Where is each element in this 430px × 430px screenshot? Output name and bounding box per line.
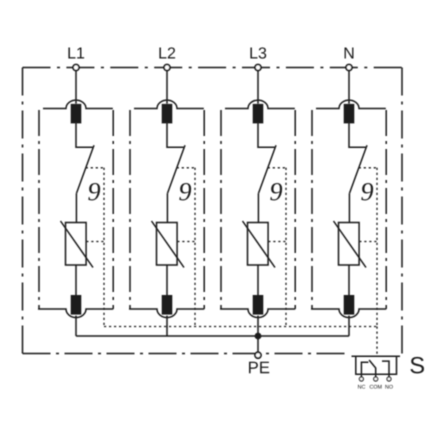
wire bottom contact to PE bus bbox=[348, 316, 350, 336]
bottom disconnect contact pin (filled) bbox=[344, 295, 355, 315]
top plug-in contact arc bbox=[43, 100, 113, 108]
wire switch to varistor bbox=[75, 193, 77, 222]
CHANNEL 2 (L2) module SPD2 dashed outline bbox=[130, 110, 204, 309]
varistor MOV1 bbox=[66, 223, 87, 266]
top disconnect contact pin (filled) bbox=[162, 104, 173, 124]
CHANNEL 1 (L1) module SPD1 dashed outline bbox=[39, 110, 113, 309]
thermal sensor symbol (theta) bbox=[270, 183, 282, 201]
bottom disconnect contact pin (filled) bbox=[253, 295, 264, 315]
thermal sensor symbol (theta) bbox=[179, 183, 191, 201]
label NC bbox=[358, 385, 365, 389]
thermal disconnect switch blade bbox=[350, 145, 368, 193]
thermal sensor symbol (theta) bbox=[88, 183, 100, 201]
thermal sense dotted links bbox=[177, 168, 195, 327]
wire bottom contact to PE bus bbox=[75, 316, 77, 336]
wire contact to thermal switch bbox=[349, 123, 366, 147]
terminal PE bbox=[255, 352, 261, 358]
thermal sense dotted collector line to remote contact bbox=[104, 327, 377, 356]
top disconnect contact pin (filled) bbox=[71, 104, 82, 124]
CHANNEL 3 (L3) module SPD3 dashed outline bbox=[221, 110, 295, 309]
thermal sense dotted links bbox=[86, 168, 104, 327]
terminal L3 bbox=[255, 65, 261, 71]
varistor MOV2 bbox=[157, 223, 178, 266]
label N bbox=[345, 47, 354, 58]
PE bus wire joining varistor bottoms bbox=[76, 335, 349, 337]
wire junction to PE terminal bbox=[257, 336, 259, 352]
terminal N bbox=[346, 65, 352, 71]
thermal disconnect switch blade bbox=[259, 145, 277, 193]
wire switch to varistor bbox=[257, 193, 259, 222]
varistor MOV4 bbox=[339, 223, 360, 266]
wire L2 terminal to top contact bbox=[166, 71, 168, 104]
label L3 bbox=[250, 47, 266, 58]
wire varistor to bottom contact bbox=[75, 265, 77, 295]
label S bbox=[410, 357, 424, 374]
varistor MOV3 bbox=[248, 223, 269, 266]
terminal L1 bbox=[73, 65, 79, 71]
thermal disconnect switch blade bbox=[77, 145, 95, 193]
top plug-in contact arc bbox=[225, 100, 295, 108]
thermal sensor symbol (theta) bbox=[361, 183, 373, 201]
bottom plug-in contact arc bbox=[311, 309, 386, 318]
label L2 bbox=[159, 47, 175, 58]
bottom plug-in contact arc bbox=[220, 309, 295, 318]
enclosure border dash-dot outline bbox=[23, 68, 403, 354]
wire L3 terminal to top contact bbox=[257, 71, 259, 104]
label PE bbox=[249, 362, 269, 373]
wire switch to varistor bbox=[348, 193, 350, 222]
wire contact to thermal switch bbox=[258, 123, 275, 147]
terminal NC bbox=[359, 377, 363, 381]
label COM bbox=[370, 385, 382, 389]
node PE junction dot bbox=[255, 333, 262, 340]
top plug-in contact arc bbox=[134, 100, 204, 108]
wire bottom contact to PE bus bbox=[166, 316, 168, 336]
wire bottom contact to PE bus bbox=[257, 316, 259, 336]
NC contact bbox=[361, 362, 368, 377]
label NO bbox=[385, 385, 392, 389]
thermal sense dotted links bbox=[359, 168, 377, 327]
wire varistor to bottom contact bbox=[257, 265, 259, 295]
bottom disconnect contact pin (filled) bbox=[71, 295, 82, 315]
thermal sense dotted links bbox=[268, 168, 286, 327]
top disconnect contact pin (filled) bbox=[344, 104, 355, 124]
COM contact with blade bbox=[369, 360, 376, 377]
terminal NO bbox=[387, 377, 391, 381]
NO contact bbox=[382, 361, 389, 377]
wire varistor to bottom contact bbox=[348, 265, 350, 295]
wire contact to thermal switch bbox=[167, 123, 184, 147]
wire N terminal to top contact bbox=[348, 71, 350, 104]
terminal L2 bbox=[164, 65, 170, 71]
wire switch to varistor bbox=[166, 193, 168, 222]
bottom plug-in contact arc bbox=[38, 309, 113, 318]
label L1 bbox=[68, 47, 84, 58]
wire varistor to bottom contact bbox=[166, 265, 168, 295]
bottom plug-in contact arc bbox=[129, 309, 204, 318]
top plug-in contact arc bbox=[316, 100, 386, 108]
wire L1 terminal to top contact bbox=[75, 71, 77, 104]
bottom disconnect contact pin (filled) bbox=[162, 295, 173, 315]
top disconnect contact pin (filled) bbox=[253, 104, 264, 124]
thermal disconnect switch blade bbox=[168, 145, 186, 193]
remote signalling changeover contact box bbox=[352, 355, 401, 357]
CHANNEL 4 (N) module SPD4 dashed outline bbox=[312, 110, 386, 309]
wire contact to thermal switch bbox=[76, 123, 93, 147]
terminal COM bbox=[374, 377, 378, 381]
